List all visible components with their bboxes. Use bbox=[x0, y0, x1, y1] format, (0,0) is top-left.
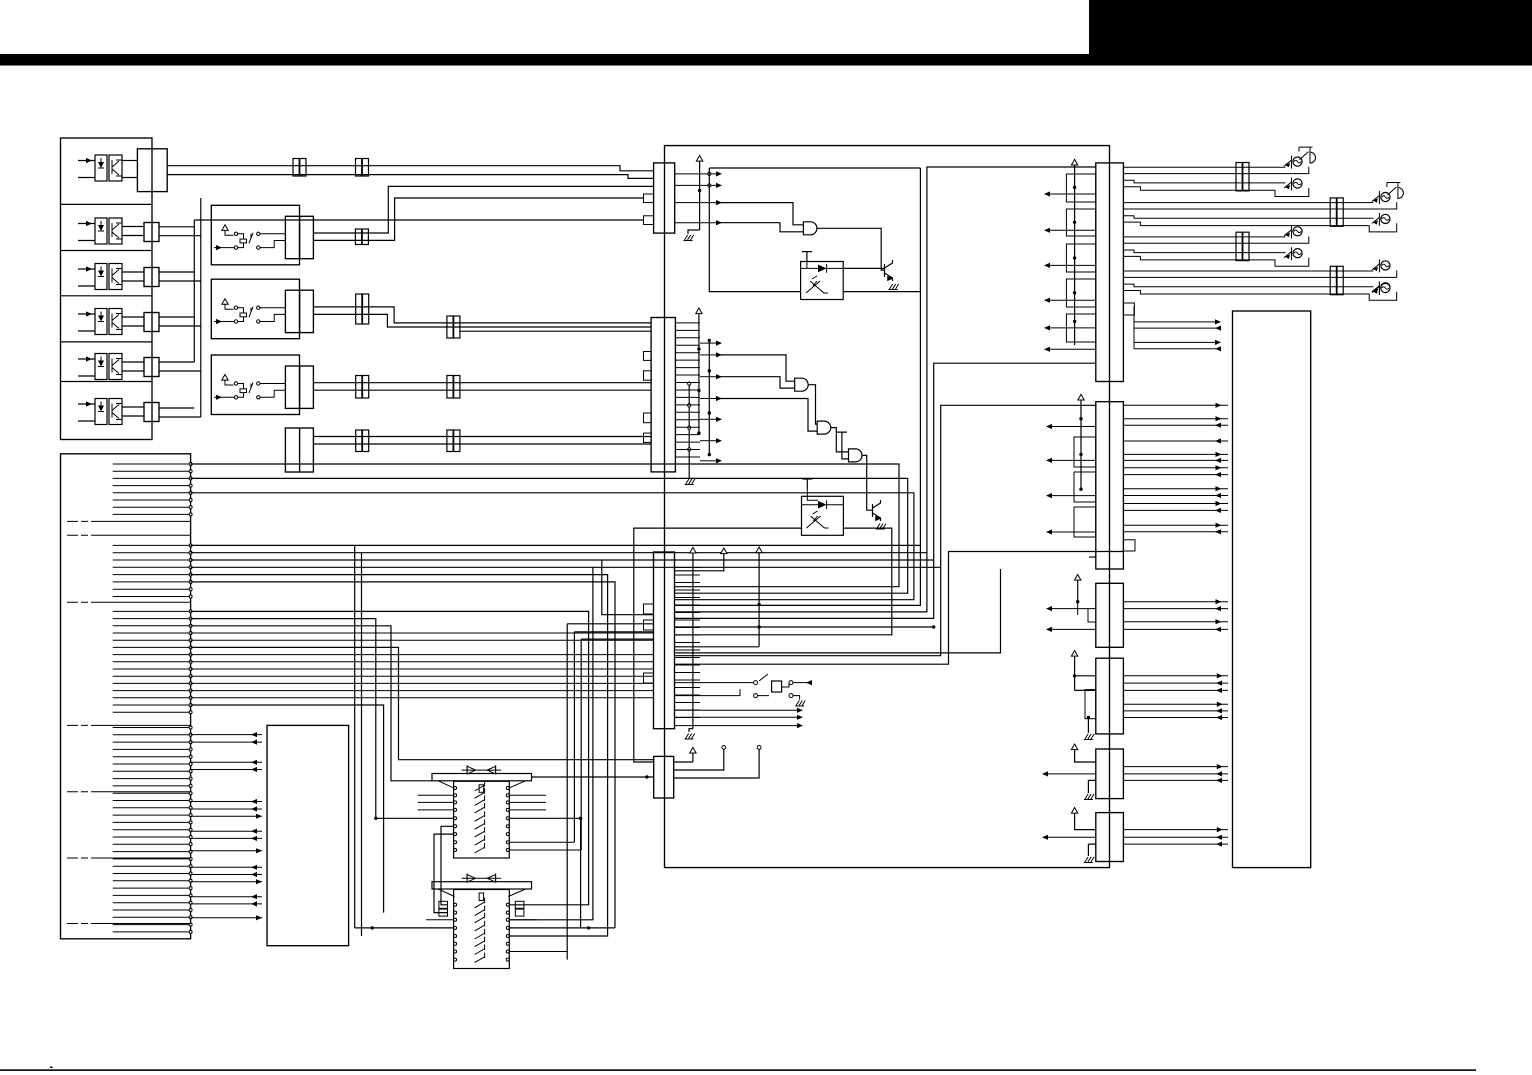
AND gate U3 bbox=[817, 421, 831, 434]
wire aux bus3 bbox=[460, 330, 651, 332]
AND gate U1 bbox=[803, 222, 817, 235]
CN306 power rail bbox=[1071, 808, 1095, 830]
connector J8 feed bbox=[356, 430, 362, 452]
wire bus to J301 bbox=[1123, 167, 1308, 197]
I/O board signal lines bbox=[113, 464, 191, 932]
SW1 row stubs bbox=[418, 795, 546, 810]
wire RL3 out lower bbox=[313, 389, 651, 391]
wire bank bus to CN201 tab2 bbox=[194, 219, 643, 221]
SW1 row5 east wire bbox=[509, 817, 582, 820]
wire G2e bbox=[191, 575, 654, 936]
bottom feed center bbox=[299, 428, 301, 472]
wire stubs to key PCB bbox=[191, 732, 262, 920]
nest wire N6 bbox=[675, 363, 1096, 618]
relay RL1 block bbox=[211, 205, 299, 264]
CN302 tab wire bbox=[1089, 556, 1096, 558]
connector J304 bbox=[1330, 266, 1336, 294]
solenoid J302b bbox=[1381, 214, 1390, 223]
wire bus to J304 bbox=[1123, 271, 1396, 301]
CN203 rail A bbox=[689, 547, 696, 732]
connector J9 feed bbox=[447, 430, 453, 452]
ground at S1 bbox=[795, 701, 805, 707]
CN202 left tabs bbox=[644, 352, 652, 443]
U4 pull-up bbox=[837, 432, 849, 459]
interlock switch S1 bbox=[675, 674, 813, 700]
CN304 power rail bbox=[1071, 651, 1077, 678]
inner shield box left bbox=[709, 167, 920, 169]
CN303 loop bbox=[1078, 602, 1096, 622]
CN202 rail B bbox=[696, 308, 702, 435]
CN202 rail A bbox=[688, 382, 691, 472]
CN302 right tab bbox=[1123, 540, 1135, 551]
connector CN305 bbox=[1096, 749, 1124, 799]
CN204 rail A bbox=[674, 747, 696, 762]
wire PC202 out bbox=[675, 528, 892, 635]
SW1 row8 east bbox=[509, 841, 574, 843]
SW2 row5 west wire bbox=[355, 926, 454, 929]
bus vertical A bbox=[193, 220, 195, 362]
wire PC201 out to nest bbox=[843, 291, 920, 293]
nest wire N4 bbox=[675, 168, 921, 605]
main logic board box bbox=[665, 146, 1110, 868]
wire PC4 leads bbox=[122, 317, 144, 326]
SW1 row9 east bbox=[509, 849, 581, 851]
connector J4 RL2 bbox=[356, 294, 362, 324]
bottom feed rect bbox=[285, 428, 313, 472]
solenoid J301a bbox=[1293, 157, 1302, 166]
PC202 triac bbox=[807, 511, 829, 528]
I/O board pin circles bbox=[189, 463, 192, 934]
wire row2 outputs bbox=[159, 227, 201, 236]
ground at Q202 bbox=[876, 524, 886, 530]
CN301 pin loops bbox=[1066, 174, 1095, 342]
CN201 left tabs bbox=[644, 194, 654, 225]
wire row6 outputs bbox=[159, 408, 201, 417]
CN305 ground bbox=[1084, 780, 1096, 799]
footer tick mark bbox=[50, 1067, 53, 1069]
wire row1 lower bbox=[167, 175, 653, 179]
connector J1 row1 bbox=[293, 159, 299, 177]
wire G1c bbox=[191, 493, 914, 600]
relay RL2 connector rect bbox=[285, 290, 313, 332]
wire row1 upper bbox=[167, 166, 653, 171]
PC202 LED bbox=[818, 501, 827, 509]
connector CN306 bbox=[1096, 813, 1124, 862]
wire G2d bbox=[191, 567, 941, 959]
wire G2c bbox=[191, 560, 934, 615]
vertical SW1r5-SW2 bbox=[580, 818, 582, 928]
SW2 row5 east wire bbox=[509, 926, 615, 929]
photocoupler PC3 bbox=[78, 268, 95, 270]
transistor Q201 bbox=[885, 260, 893, 281]
wire feed upper bbox=[313, 436, 651, 438]
wire PC3 leads bbox=[122, 272, 144, 281]
CN303 power rail bbox=[1075, 575, 1081, 604]
PC202 pull-up bbox=[802, 479, 812, 489]
relay RL1 connector center bbox=[299, 216, 301, 258]
optocoupler bank divider 5 bbox=[61, 381, 153, 383]
connector rect row4 bbox=[144, 313, 159, 332]
wire to U2 inB bbox=[716, 377, 795, 388]
wire U4 out bbox=[862, 455, 873, 510]
CN204 rail C bbox=[674, 746, 761, 779]
wire G2f bbox=[191, 582, 654, 928]
AND gate U2 bbox=[795, 378, 809, 391]
connector CN304 bbox=[1096, 658, 1124, 734]
CN303 left arrow wires bbox=[1046, 606, 1096, 632]
CN203 rail B bbox=[675, 548, 728, 571]
optocoupler bank divider 2 bbox=[61, 250, 153, 252]
PC201 LED bbox=[818, 265, 827, 273]
wire G3-2 outer loop bbox=[191, 626, 432, 781]
wire CN203 row627 bbox=[675, 625, 936, 628]
page header black block (top right) bbox=[1089, 0, 1532, 66]
CN306 left stub bbox=[1042, 835, 1096, 840]
relay RL2 connector center bbox=[299, 290, 301, 332]
CN302 wires to driver box bbox=[1123, 403, 1228, 535]
connector J6 RL3 bbox=[356, 376, 362, 399]
CN304 wire join bbox=[1075, 676, 1096, 691]
photocoupler PC4 bbox=[78, 313, 95, 315]
connector CN202 bbox=[651, 318, 675, 472]
nest wire N7 bbox=[675, 405, 1095, 655]
SW2 right loops bbox=[515, 901, 524, 916]
connector J3 RL1 bbox=[355, 229, 361, 245]
wire PC6 leads bbox=[122, 407, 144, 416]
nest wire N5 bbox=[675, 167, 1096, 612]
wire RL3 out upper bbox=[313, 382, 651, 384]
optocoupler bank outer box bbox=[61, 138, 153, 440]
solenoid J303a bbox=[1293, 227, 1302, 236]
CN302 left arrow wires bbox=[1046, 424, 1096, 535]
nest riser N9 bbox=[675, 569, 1000, 653]
solenoid SL8 bbox=[1381, 283, 1390, 292]
wire RL2 out upper bbox=[313, 307, 651, 323]
photocoupler PC1 bbox=[78, 160, 95, 162]
wire to U2 inA bbox=[716, 355, 795, 381]
footer rule bbox=[0, 1069, 1476, 1071]
CN201 power rail bbox=[688, 156, 703, 235]
CN301 power rail bbox=[1071, 159, 1077, 345]
AND gate U4 bbox=[849, 449, 863, 462]
photocoupler PC5 bbox=[78, 358, 95, 360]
wire to U1 inB bbox=[716, 223, 803, 232]
photocoupler PC6 bbox=[78, 403, 95, 405]
page header black bar bbox=[0, 54, 1532, 66]
connector rect row3 bbox=[144, 268, 159, 287]
ground at CN202 bbox=[685, 472, 695, 485]
wire G3-5 outer loop bbox=[191, 647, 654, 759]
driver board box bbox=[1233, 311, 1311, 868]
I/O board dashed group breaks bbox=[67, 521, 191, 923]
CN203 right pins bbox=[675, 560, 701, 718]
CN304 pin loop bbox=[1085, 690, 1096, 719]
wire to U3 inB bbox=[716, 399, 817, 432]
connector CN203 bbox=[654, 552, 675, 729]
wire bus to J303 bbox=[1123, 236, 1308, 266]
wire U3 out bbox=[831, 428, 849, 452]
CN203 rail C bbox=[675, 547, 763, 647]
connector CN301 bbox=[1096, 163, 1124, 382]
CN303 wires to driver box bbox=[1123, 599, 1228, 632]
PC201 triac bbox=[806, 276, 828, 293]
photocoupler PC202 bbox=[802, 496, 844, 535]
wire row5 outputs bbox=[159, 362, 201, 371]
CN305 power rail bbox=[1071, 744, 1095, 762]
SW1 row6 loop to SW2 bbox=[441, 826, 454, 905]
nest riser N8 bbox=[675, 552, 1123, 665]
CN301 bottom tab bbox=[1123, 303, 1134, 315]
wire G3-1 bbox=[191, 619, 376, 819]
wire G2a bbox=[191, 545, 921, 928]
solenoid J304b bbox=[1381, 283, 1390, 292]
I/O board outer box bbox=[61, 454, 191, 939]
bus vertical B bbox=[200, 198, 202, 417]
SW2 row stubs bbox=[426, 919, 537, 921]
CN301 left wires bbox=[1044, 191, 1096, 352]
wire U2 out bbox=[808, 385, 817, 424]
relay RL3 connector rect bbox=[285, 366, 313, 408]
connector rect row5 bbox=[144, 358, 159, 377]
wire feed lower bbox=[313, 443, 651, 445]
connector rect row2 bbox=[144, 223, 159, 242]
wire U1 out bbox=[817, 228, 885, 270]
solenoid J301b bbox=[1293, 179, 1302, 188]
solenoid J302a bbox=[1381, 192, 1390, 201]
CN301 wires to driver box bbox=[1134, 306, 1221, 351]
wire PC202 in bbox=[634, 528, 802, 762]
wire PC201 in lower bbox=[709, 168, 800, 292]
relay RL3 block bbox=[211, 355, 299, 415]
SW2 row8 east bbox=[509, 951, 567, 953]
PC201 pull-up bbox=[802, 252, 812, 262]
connector CN302 bbox=[1096, 402, 1124, 569]
photocoupler PC201 bbox=[801, 262, 844, 300]
ground at Q201 bbox=[889, 284, 899, 290]
optocoupler bank divider 3 bbox=[61, 295, 153, 297]
wire to U1 inA bbox=[716, 203, 803, 225]
connector J5 bus bbox=[447, 316, 453, 338]
SW2 left loops bbox=[439, 901, 448, 916]
wire bus to J302 bbox=[1123, 202, 1396, 232]
ground at CN203 bbox=[685, 734, 695, 740]
CN204 rail B bbox=[674, 746, 726, 771]
SW1 row5 west wire bbox=[374, 817, 454, 820]
solenoid J303b bbox=[1293, 249, 1302, 258]
connector J301 bbox=[1236, 163, 1242, 191]
key PCB box bbox=[267, 725, 349, 945]
connector CN204 bbox=[654, 756, 674, 798]
CN203 left tabs bbox=[644, 604, 654, 683]
optocoupler bank divider 4 bbox=[61, 341, 153, 343]
wire G1b bbox=[191, 478, 908, 593]
key switch matrix SW1 bbox=[432, 774, 532, 781]
connector J7 RL3 bbox=[447, 376, 453, 399]
relay RL2 block bbox=[211, 279, 299, 339]
wire RL1 out upper bbox=[313, 186, 653, 233]
CN201 output pins bbox=[675, 171, 722, 225]
CN202 rail C bbox=[708, 339, 711, 457]
connector CN201 bbox=[654, 163, 675, 233]
CN304 wires to driver box bbox=[1123, 673, 1228, 720]
optocoupler bank divider 1 bbox=[61, 203, 153, 205]
CN306 wires to driver box bbox=[1123, 827, 1228, 847]
wire row3 outputs bbox=[159, 272, 201, 281]
transistor Q202 bbox=[873, 500, 881, 521]
CN203 out arrows bbox=[675, 708, 804, 729]
CN305 left stub bbox=[1042, 771, 1096, 776]
solenoid J304a bbox=[1381, 261, 1390, 270]
wire RL1 out lower bbox=[313, 198, 643, 240]
wire PC2 leads bbox=[122, 227, 144, 236]
SW1 top bar east wire bbox=[532, 775, 654, 778]
wire G2b bbox=[191, 553, 927, 936]
connector J2 row1 bbox=[356, 159, 362, 177]
CN306 ground bbox=[1084, 844, 1096, 862]
ground at CN201 bbox=[684, 235, 694, 241]
flow arrow S1 bbox=[806, 680, 812, 685]
wire PC1 to CN bbox=[122, 161, 137, 178]
CN304 ground bbox=[1084, 716, 1094, 740]
SW1 row7 loop to SW2 bbox=[434, 834, 454, 913]
connector rect row1 bbox=[137, 149, 167, 192]
wire RL2 out lower bbox=[313, 314, 651, 327]
wire G3-0 bbox=[191, 611, 589, 904]
CN302 power rail bbox=[1078, 394, 1084, 491]
wire row4 outputs bbox=[159, 317, 201, 326]
wire G3-13 bbox=[191, 705, 384, 913]
CN202 output pins bbox=[675, 323, 722, 464]
connector J303 bbox=[1236, 232, 1242, 260]
wire bus G3 to CN203 bbox=[191, 633, 654, 698]
relay RL3 connector center bbox=[299, 366, 301, 408]
photocoupler PC2 bbox=[78, 223, 95, 225]
connector CN303 bbox=[1096, 583, 1124, 647]
wire PC5 leads bbox=[122, 362, 144, 371]
connector rect row6 bbox=[144, 403, 159, 422]
wire PC201 to Q201 bbox=[843, 267, 884, 269]
CN302 pin loops bbox=[1074, 437, 1096, 537]
CN305 wires to driver box bbox=[1123, 764, 1228, 783]
relay RL1 connector rect bbox=[285, 216, 313, 258]
key switch matrix SW2 bbox=[432, 882, 532, 889]
connector J302 bbox=[1330, 198, 1336, 226]
wire G1a bbox=[191, 464, 899, 587]
